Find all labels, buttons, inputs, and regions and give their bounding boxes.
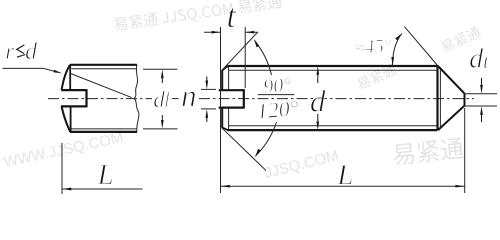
right view cone bottom generator <box>438 106 465 131</box>
left view thread line bottom <box>71 128 137 130</box>
ext line t and L shared left <box>220 27 222 193</box>
left view crown slant top <box>62 65 71 90</box>
dim n arrow bottom <box>205 109 208 118</box>
angle line 90 top <box>222 32 258 70</box>
right view thread top <box>229 69 437 71</box>
left view face vertical top <box>69 65 71 91</box>
right view cone top generator <box>438 66 465 94</box>
left view slot diagonal <box>71 74 132 98</box>
dim dt label t <box>484 56 489 68</box>
left view face vertical bottom <box>70 106 72 132</box>
right view chamfer line bottom <box>228 108 230 130</box>
cone 45 arc <box>393 34 402 66</box>
label 90 deg <box>264 78 290 93</box>
centerline df gap dash <box>172 98 179 100</box>
dim df arrow up tail <box>161 76 163 83</box>
watermark top right <box>441 26 481 52</box>
dim df label f <box>165 91 172 108</box>
right view slot right edge <box>243 89 245 108</box>
centerline left view <box>48 98 152 100</box>
dim t dim line <box>204 31 257 33</box>
dim n arrow top <box>205 81 208 90</box>
cone 45 line <box>405 27 439 66</box>
left view thread line top <box>72 68 138 70</box>
leader r<=d line <box>3 68 55 71</box>
angle arc arrow top <box>254 39 259 48</box>
dim df arrow down <box>161 120 164 129</box>
right view slot top edge <box>219 89 244 91</box>
dim df arrow down tail <box>161 115 163 122</box>
angle arc upper segment <box>255 41 272 76</box>
right view chamfer bottom <box>222 127 229 130</box>
left view crown slant bottom <box>62 107 71 132</box>
dim L left arrow <box>62 188 71 191</box>
dim L left dim line <box>62 188 143 190</box>
left view body top edge <box>70 64 137 66</box>
dim dt arrow bottom <box>480 106 483 115</box>
dim n label <box>182 92 195 107</box>
label r<=d leq symbol <box>17 45 26 57</box>
right view chamfer top <box>222 66 229 71</box>
dim L left label <box>97 165 112 184</box>
label r<=d r <box>6 48 14 59</box>
dim dt arrow bottom tail <box>481 113 483 123</box>
dim t arrow right <box>245 31 254 34</box>
dim t label <box>228 8 237 27</box>
cone 45 arc arrow bottom <box>391 57 394 66</box>
dim n arrow bottom tail <box>206 116 208 123</box>
dim d arrow bottom tail <box>317 114 319 124</box>
angle line 120 bottom <box>222 128 266 170</box>
fraction bar <box>258 94 295 96</box>
dim df ext line top <box>143 68 178 70</box>
dim d arrow top tail <box>317 73 319 84</box>
right view left face lower <box>221 108 223 128</box>
left view slot bottom edge <box>61 105 87 107</box>
dim dt arrow top tail <box>481 78 483 88</box>
dim dt arrow top <box>480 85 483 94</box>
dim L left ext line <box>61 143 63 194</box>
right view chamfer line top <box>228 66 230 90</box>
angle arc lower segment <box>256 122 277 156</box>
right view top edge <box>228 65 438 67</box>
label approx 45 deg <box>355 39 391 53</box>
dim n ext line top <box>201 88 216 90</box>
dim dt label d <box>470 48 483 68</box>
right view thread bottom <box>229 125 437 127</box>
watermark bottom right <box>394 138 464 165</box>
dim d label <box>311 90 326 112</box>
dim d arrow top <box>316 66 319 75</box>
dim d arrow bottom <box>316 122 319 131</box>
right view cone tip flat <box>464 94 466 106</box>
dim L right arrow right <box>455 185 464 188</box>
dim df label d <box>154 91 165 107</box>
watermark upper right <box>357 63 397 89</box>
dim n arrow top tail <box>206 77 208 84</box>
right view body end vertical <box>436 66 438 130</box>
dim L right arrow left <box>221 185 230 188</box>
cone 45 arc arrow top <box>395 33 402 40</box>
centerline right view <box>199 98 474 100</box>
right view left face upper <box>221 70 223 90</box>
dim df ext line bottom <box>143 128 178 130</box>
left view slot right edge <box>85 89 87 107</box>
dim L right dim line <box>221 185 465 187</box>
dim n ext line bottom <box>201 108 216 110</box>
watermark bottom middle <box>265 150 338 178</box>
dim dt ext line bottom <box>465 105 498 107</box>
right view slot bottom edge <box>219 106 244 108</box>
dim df arrow up <box>161 69 164 78</box>
dim t ext line right <box>244 27 246 88</box>
dim dt ext line top <box>465 93 498 95</box>
label r<=d d <box>26 42 37 59</box>
label 120 deg <box>258 101 298 119</box>
left view break line <box>134 65 139 132</box>
dim L right label <box>337 165 352 184</box>
left view slot top edge <box>61 89 86 91</box>
watermark top <box>115 0 283 31</box>
left view body bottom edge <box>70 131 137 133</box>
leader r<=d arrow <box>53 70 62 74</box>
watermark bottom left <box>3 132 123 166</box>
dim t arrow left <box>212 31 221 34</box>
dim L right ext line right <box>464 108 466 193</box>
right view cone base thin line <box>439 67 441 129</box>
angle arc arrow bottom <box>255 149 260 157</box>
right view bottom edge <box>228 129 438 131</box>
